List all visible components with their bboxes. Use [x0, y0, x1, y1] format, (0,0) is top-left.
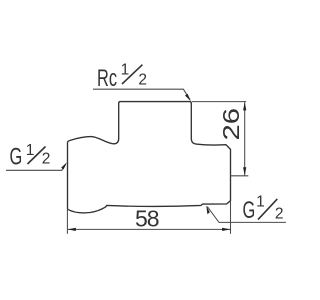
svg-text:58: 58	[135, 206, 160, 232]
svg-text:G: G	[243, 197, 256, 224]
svg-text:2: 2	[275, 206, 284, 223]
svg-text:1: 1	[256, 193, 265, 210]
dim 26: top extension (continuation of port top edge)	[192, 101, 246, 103]
dim 58: arrow right	[222, 228, 230, 231]
dim 58: arrow left	[68, 228, 76, 231]
svg-text:Rc: Rc	[97, 65, 117, 92]
dim 58: left extension	[66, 210, 68, 234]
dim 26: arrow up	[243, 102, 246, 110]
svg-text:26: 26	[218, 108, 244, 141]
label Rc1/2 leader arrow	[185, 94, 191, 101]
label G1/2 left leader	[6, 165, 66, 171]
dim 26: bottom extension	[231, 175, 249, 177]
label G1/2 right leader arrow	[206, 205, 210, 214]
dim 58: dimension line	[68, 228, 230, 230]
dim 26: dimension line	[244, 102, 246, 175]
svg-text:G: G	[10, 143, 23, 170]
label Rc1/2 leader	[93, 89, 190, 100]
svg-text:2: 2	[138, 71, 147, 88]
fitting body outline	[68, 102, 231, 213]
label G1/2 left fraction slash	[28, 147, 46, 165]
label G1/2 left leader arrow	[61, 162, 67, 169]
svg-text:1: 1	[26, 142, 35, 159]
label Rc1/2 fraction slash	[122, 65, 142, 84]
svg-text:2: 2	[42, 151, 51, 168]
svg-text:1: 1	[121, 61, 130, 78]
dim 26: arrow down	[243, 167, 246, 175]
label G1/2 right fraction slash	[258, 199, 277, 220]
dim 58: right extension	[230, 201, 232, 234]
label G1/2 right leader	[207, 207, 286, 223]
